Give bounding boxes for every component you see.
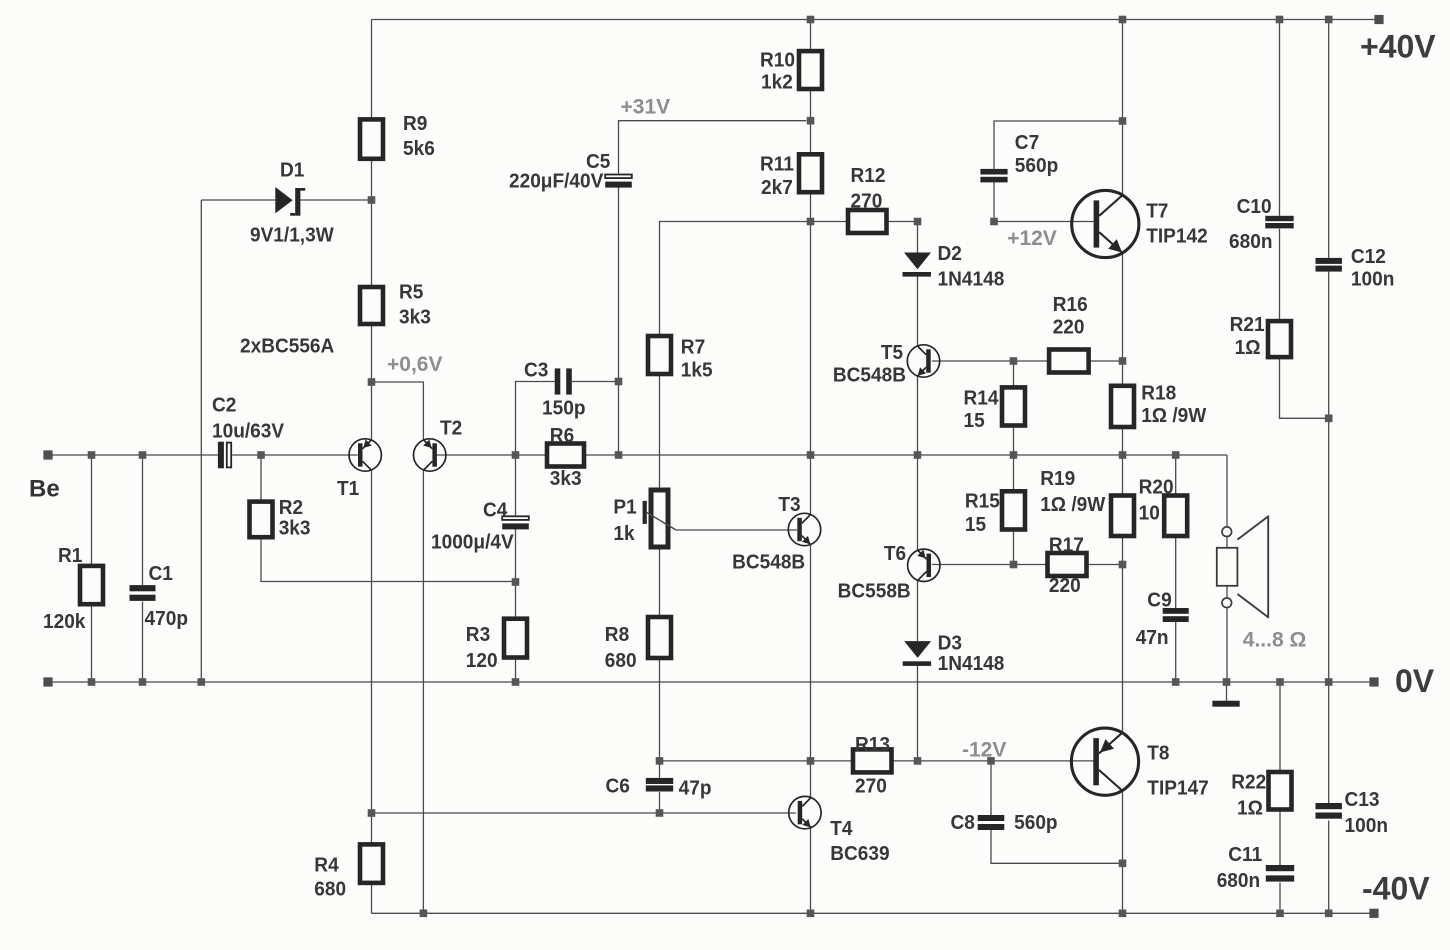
node 0V/C9 <box>1172 678 1180 686</box>
label P1 <box>613 496 636 545</box>
capacitor C12 100n <box>1316 258 1342 272</box>
node 0V/R1 <box>88 678 96 686</box>
svg-text:C6: C6 <box>606 775 630 798</box>
wire R17 leads <box>1014 564 1123 566</box>
svg-text:220: 220 <box>1053 316 1085 339</box>
ground symbol <box>1212 701 1239 707</box>
label +0,6V <box>387 353 442 376</box>
svg-text:C12: C12 <box>1351 245 1386 268</box>
transistor T5 BC548B <box>907 345 939 377</box>
wire T2 base to R6 <box>437 454 547 456</box>
transistor T7 TIP142 <box>1072 190 1139 257</box>
wire 0V rail <box>48 681 1374 683</box>
svg-text:+12V: +12V <box>1007 227 1057 250</box>
diode D2 1N4148 <box>903 253 932 277</box>
node R18/R19 output <box>1119 451 1127 459</box>
node T5/T6 output <box>914 451 922 459</box>
svg-text:270: 270 <box>855 775 887 798</box>
resistor R4 <box>360 844 383 883</box>
label R5 <box>399 280 431 328</box>
svg-text:Be: Be <box>29 476 60 503</box>
wire R15 leads <box>1013 455 1015 565</box>
node R20 output <box>1172 451 1180 459</box>
svg-text:1N4148: 1N4148 <box>938 652 1005 675</box>
node -40V/C13 <box>1325 910 1333 918</box>
label +12V <box>1007 227 1057 250</box>
label R17 <box>1049 533 1084 597</box>
svg-text:C13: C13 <box>1345 788 1380 811</box>
resistor R8 <box>648 617 671 658</box>
svg-text:TIP142: TIP142 <box>1146 225 1208 248</box>
svg-text:1k5: 1k5 <box>681 358 713 381</box>
svg-text:T3: T3 <box>778 493 800 516</box>
svg-text:D2: D2 <box>938 242 962 265</box>
svg-text:270: 270 <box>851 189 883 212</box>
label C9 <box>1136 588 1172 649</box>
svg-text:C4: C4 <box>483 499 508 522</box>
node 0V/speaker <box>1223 678 1231 686</box>
wire R7 top run <box>660 222 811 337</box>
label C2 <box>212 393 284 442</box>
svg-text:+31V: +31V <box>621 96 671 119</box>
wire C2 to T1 base <box>232 454 358 456</box>
svg-text:T6: T6 <box>884 542 906 565</box>
label T4 <box>830 817 889 865</box>
svg-text:120k: 120k <box>43 610 86 633</box>
node D3/R13 <box>914 757 922 765</box>
resistor R13 <box>853 749 892 772</box>
wire R11 bottom to R12 node <box>810 192 812 221</box>
label -40V <box>1362 871 1430 907</box>
svg-text:R7: R7 <box>681 336 705 359</box>
node 0V/R3 <box>512 678 520 686</box>
wire C13 to -40V <box>1328 821 1330 914</box>
svg-text:10: 10 <box>1139 502 1160 525</box>
svg-text:C8: C8 <box>951 811 975 834</box>
resistor R2 <box>250 502 273 538</box>
zener diode D1 9V1 <box>275 187 305 216</box>
wire speaker ground stem <box>1226 682 1228 701</box>
node C8/T8 collector <box>1119 860 1127 868</box>
wire D2 to T5 collector <box>917 277 919 347</box>
wire -40V bottom rail <box>372 912 1375 914</box>
transistor T2 BC556A <box>414 439 446 471</box>
svg-text:C1: C1 <box>149 562 173 585</box>
node input/C1 <box>139 451 147 459</box>
resistor R9 <box>360 119 383 158</box>
wire T3 emitter to T4 collector <box>810 545 812 798</box>
svg-text:R8: R8 <box>605 623 629 646</box>
svg-text:R1: R1 <box>58 544 82 567</box>
svg-text:0V: 0V <box>1395 663 1435 699</box>
svg-text:680n: 680n <box>1217 869 1261 892</box>
node 0V/R22 <box>1276 678 1284 686</box>
wire C8 leads <box>991 761 1123 863</box>
svg-text:15: 15 <box>965 513 986 536</box>
resistor R21 <box>1268 321 1291 357</box>
node +40V/C10 <box>1276 16 1284 24</box>
wire T8 collector down to -40V <box>1122 790 1124 913</box>
wire T6 collector to D3 <box>917 580 919 641</box>
svg-text:220: 220 <box>1049 574 1081 597</box>
node 0V/C12-C13 <box>1325 678 1333 686</box>
svg-text:5k6: 5k6 <box>403 137 435 160</box>
svg-text:R15: R15 <box>965 489 1000 512</box>
label C11 <box>1217 843 1263 892</box>
svg-text:R4: R4 <box>314 853 339 876</box>
svg-text:3k3: 3k3 <box>550 467 582 490</box>
svg-text:C7: C7 <box>1015 131 1039 154</box>
svg-text:R11: R11 <box>760 153 794 176</box>
wire R3 bottom <box>515 658 517 683</box>
label R18 <box>1141 381 1207 427</box>
svg-text:BC639: BC639 <box>830 842 889 865</box>
label R21 <box>1230 313 1265 359</box>
capacitor C11 680n <box>1266 865 1294 882</box>
resistor R18 <box>1111 386 1134 427</box>
svg-text:220μF/40V: 220μF/40V <box>509 170 604 193</box>
node T3 collector/main <box>807 451 815 459</box>
svg-text:47n: 47n <box>1136 626 1169 649</box>
wire C10 to R21 <box>1279 229 1281 321</box>
svg-text:T1: T1 <box>337 477 359 500</box>
label C5 <box>509 150 610 193</box>
svg-text:R17: R17 <box>1049 533 1084 556</box>
svg-text:100n: 100n <box>1351 268 1395 291</box>
wire 0V to C13 <box>1328 682 1330 803</box>
wire C7 leads <box>994 121 1123 222</box>
node +40V/R10 <box>807 16 815 24</box>
wire T4 emitter to -40V <box>810 828 812 913</box>
svg-text:T2: T2 <box>440 417 462 440</box>
node input/R1 <box>88 451 96 459</box>
label R2 <box>279 496 311 540</box>
svg-text:T5: T5 <box>881 341 903 364</box>
svg-text:+0,6V: +0,6V <box>387 353 442 376</box>
node +0,6V emitters <box>368 378 376 386</box>
svg-text:1Ω: 1Ω <box>1237 797 1263 820</box>
node 0V/D1 <box>198 678 206 686</box>
label 0V <box>1395 663 1435 699</box>
svg-text:560p: 560p <box>1014 811 1058 834</box>
wire T5 emitter to output line <box>917 376 919 455</box>
transistor T1 BC556A <box>349 439 381 471</box>
wire speaker top lead <box>1226 455 1228 548</box>
label +40V <box>1360 29 1436 65</box>
node +31V <box>807 117 815 125</box>
node T3-T4/R13 <box>807 757 815 765</box>
svg-text:BC558B: BC558B <box>838 580 911 603</box>
wire C12 down to 0V <box>1328 272 1330 682</box>
wire R1 leads <box>91 455 93 682</box>
label +31V <box>621 96 671 119</box>
svg-text:R6: R6 <box>550 424 574 447</box>
capacitor C1 470p <box>130 585 156 601</box>
label D2 <box>938 242 1005 291</box>
wire T8 base line R13 run <box>660 760 1094 762</box>
svg-text:560p: 560p <box>1015 154 1059 177</box>
label R20 <box>1139 475 1174 524</box>
node T1 collector/R4 <box>368 809 376 817</box>
label C3 <box>524 358 586 419</box>
wire T4 base line <box>372 812 796 814</box>
resistor R3 <box>504 619 527 658</box>
svg-text:R21: R21 <box>1230 313 1265 336</box>
wire input line Be to C2 <box>48 454 218 456</box>
node D1/R9/R5 <box>368 196 376 204</box>
wire T1 emitter down to node <box>371 470 373 813</box>
terminal 0V left <box>43 677 52 686</box>
svg-text:15: 15 <box>964 409 985 432</box>
label R8 <box>605 623 637 672</box>
label R3 <box>466 623 498 672</box>
terminal 0V right <box>1369 677 1378 686</box>
svg-text:120: 120 <box>466 649 498 672</box>
capacitor C8 560p <box>978 815 1005 830</box>
node C7/base T7 <box>990 218 998 226</box>
label R19 <box>1040 467 1106 516</box>
node 0V/C1 <box>139 678 147 686</box>
svg-text:47p: 47p <box>679 776 712 799</box>
wire +40V top rail <box>372 19 1380 21</box>
node R14/R16 <box>1010 357 1018 365</box>
svg-text:1k: 1k <box>613 522 635 545</box>
node C6/R8 <box>656 757 664 765</box>
wire C4 branch <box>515 455 517 619</box>
wire C1 leads <box>142 455 144 682</box>
capacitor C3 150p <box>555 368 572 394</box>
terminal +40V <box>1374 15 1383 24</box>
node C5/main <box>615 451 623 459</box>
resistor R16 <box>1049 350 1089 373</box>
node C6/T4 base line <box>656 809 664 817</box>
node R15/R17 <box>1010 561 1018 569</box>
svg-text:2k7: 2k7 <box>761 176 793 199</box>
label T2 <box>440 417 462 440</box>
label R10 <box>760 48 795 93</box>
wire R16 leads <box>1014 360 1123 362</box>
wire output line to T6 emitter <box>917 455 919 550</box>
label R15 <box>965 489 1000 536</box>
label T7 <box>1146 200 1208 248</box>
svg-text:R22: R22 <box>1231 771 1266 794</box>
label R7 <box>681 336 713 382</box>
svg-text:R18: R18 <box>1141 381 1176 404</box>
label C10 <box>1229 195 1273 253</box>
wire C10 top lead <box>1279 20 1281 216</box>
node R12/D2 <box>914 218 922 226</box>
svg-text:T4: T4 <box>830 817 853 840</box>
label C13 <box>1345 788 1389 837</box>
wire T3 collector <box>810 455 812 515</box>
wire D1 horizontal <box>201 199 371 201</box>
capacitor C4 1000u/4V <box>502 516 529 529</box>
transistor T4 BC639 <box>789 796 821 828</box>
label R4 <box>314 853 346 900</box>
wire P1 wiper to T3 base <box>676 529 797 531</box>
node C3/C4 main <box>512 451 520 459</box>
svg-text:T7: T7 <box>1146 200 1168 223</box>
capacitor C13 100n <box>1316 803 1342 819</box>
label R9 <box>403 112 435 160</box>
wire R14 leads <box>1013 361 1015 455</box>
svg-text:T8: T8 <box>1147 742 1169 765</box>
wire R17 node to T8 emitter <box>1122 565 1124 734</box>
wire R6 right to T3 collector node <box>584 454 1227 456</box>
capacitor C10 680n <box>1265 216 1293 229</box>
capacitor C6 47p <box>646 778 673 792</box>
svg-text:R10: R10 <box>760 48 795 71</box>
wire R4 leads <box>371 813 373 913</box>
label T5 <box>833 341 906 387</box>
resistor R17 <box>1048 553 1087 576</box>
wire emitters +0,6V to T2 <box>372 382 424 440</box>
wire C5 line <box>619 121 807 455</box>
svg-text:150p: 150p <box>542 396 586 419</box>
label 4...8 ohm <box>1243 629 1307 652</box>
wire T7 collector from +40V <box>1122 20 1124 196</box>
label C8 <box>951 811 1058 834</box>
label R22 <box>1231 771 1266 820</box>
capacitor C9 47n <box>1163 608 1189 622</box>
resistor R10 <box>799 51 822 89</box>
resistor R12 <box>848 210 887 233</box>
svg-text:100n: 100n <box>1345 814 1389 837</box>
label D3 <box>938 632 1005 675</box>
wire D1 anode down to 0V <box>200 200 202 682</box>
node -40V/T4 <box>807 910 815 918</box>
wire left rail R9-R5 chain <box>371 20 373 440</box>
node -40V/T8 <box>1119 910 1127 918</box>
svg-text:D1: D1 <box>280 158 304 181</box>
wire R10 leads <box>810 20 812 155</box>
svg-text:R14: R14 <box>964 387 1000 410</box>
svg-text:680: 680 <box>605 649 637 672</box>
wire C6 leads <box>659 761 661 813</box>
wire R8 down to C6 node <box>659 658 661 761</box>
svg-text:680n: 680n <box>1229 230 1273 253</box>
transistor T3 BC548B <box>788 513 820 545</box>
svg-text:C10: C10 <box>1237 195 1272 218</box>
svg-text:680: 680 <box>314 878 346 901</box>
diode D3 1N4148 <box>903 641 931 666</box>
wire speaker bottom lead <box>1226 586 1228 682</box>
label T1 <box>337 477 359 500</box>
label C6 <box>606 775 712 800</box>
node +40V/C12 <box>1325 16 1333 24</box>
label R14 <box>964 387 1000 433</box>
node R16/R18 <box>1119 357 1127 365</box>
label R13 <box>855 733 890 798</box>
svg-text:1N4148: 1N4148 <box>938 268 1005 291</box>
svg-text:R13: R13 <box>855 733 890 756</box>
svg-text:-40V: -40V <box>1362 871 1430 907</box>
terminal Be input <box>43 450 52 459</box>
resistor R14 <box>1002 387 1025 425</box>
node -40V/T2 <box>420 910 428 918</box>
svg-text:1000μ/4V: 1000μ/4V <box>431 531 514 554</box>
svg-text:1Ω /9W: 1Ω /9W <box>1141 404 1207 427</box>
label -12V <box>962 739 1006 762</box>
label R1 <box>43 544 86 633</box>
node C3/C5 <box>615 378 623 386</box>
transistor T8 TIP147 <box>1071 728 1138 795</box>
wire R12 node down to output line <box>810 222 812 456</box>
label C1 <box>145 562 189 630</box>
svg-text:C3: C3 <box>524 358 548 381</box>
potentiometer P1 <box>643 490 676 547</box>
label R11 <box>760 153 794 199</box>
wire C9 bottom <box>1175 622 1177 682</box>
svg-text:470p: 470p <box>145 607 189 630</box>
node R2/C4 <box>512 578 520 586</box>
resistor R6 <box>547 444 584 467</box>
svg-text:1k2: 1k2 <box>761 71 793 94</box>
label C12 <box>1351 245 1395 291</box>
label T8 <box>1147 742 1209 800</box>
label R6 <box>550 424 582 490</box>
node R17/R19 <box>1119 561 1127 569</box>
resistor R5 <box>360 287 383 324</box>
svg-text:BC548B: BC548B <box>833 364 906 387</box>
wire R19 leads <box>1122 455 1124 565</box>
svg-text:9V1/1,3W: 9V1/1,3W <box>250 223 334 246</box>
svg-text:R12: R12 <box>851 164 886 187</box>
node -40V/C11 <box>1276 910 1284 918</box>
svg-text:+40V: +40V <box>1360 29 1436 65</box>
svg-text:C2: C2 <box>212 393 236 416</box>
resistor R15 <box>1002 491 1025 529</box>
wire C11 bottom <box>1279 883 1281 914</box>
wire D2 top lead <box>917 222 919 253</box>
label R16 <box>1053 293 1088 339</box>
svg-text:2xBC556A: 2xBC556A <box>240 334 334 357</box>
wire R18 to output line <box>1122 427 1124 455</box>
wire R2 leads and bottom run <box>261 455 516 582</box>
wire T6 base to R17 <box>932 564 1014 566</box>
capacitor C7 560p <box>980 169 1007 183</box>
wire R12 leads <box>811 221 918 223</box>
svg-text:R9: R9 <box>403 112 427 135</box>
wire C3 branch <box>516 382 619 456</box>
node C7/collector T7 <box>1119 117 1127 125</box>
transistor T6 BC558B <box>908 549 940 581</box>
label C7 <box>1015 131 1059 177</box>
label R12 <box>851 164 886 212</box>
speaker 4...8 ohm <box>1217 516 1268 619</box>
wire T7 base line <box>994 221 1094 223</box>
resistor R7 <box>648 336 671 374</box>
node R21/C12 line <box>1325 415 1333 423</box>
wire T2 collector down <box>422 470 424 913</box>
node R11/R12/R7 <box>807 218 815 226</box>
svg-text:R16: R16 <box>1053 293 1088 316</box>
svg-text:R3: R3 <box>466 623 490 646</box>
svg-text:10u/63V: 10u/63V <box>212 419 284 442</box>
svg-text:1Ω: 1Ω <box>1235 336 1261 359</box>
svg-text:C11: C11 <box>1228 843 1262 866</box>
node R14/R15 output <box>1010 451 1018 459</box>
wire R22 leads <box>1279 682 1281 865</box>
wire R7 to P1 <box>659 374 661 490</box>
svg-text:3k3: 3k3 <box>279 517 311 540</box>
svg-text:R20: R20 <box>1139 475 1174 498</box>
label Be <box>29 476 60 503</box>
svg-text:-12V: -12V <box>962 739 1006 762</box>
label T3 <box>732 493 805 574</box>
wire R21 to C12 line <box>1280 357 1329 418</box>
wire R20 leads <box>1175 455 1177 608</box>
